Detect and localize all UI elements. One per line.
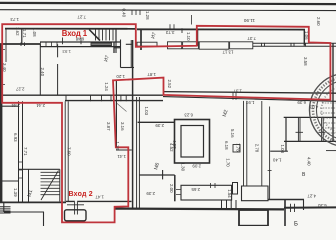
svg-text:2.27: 2.27 [15, 87, 24, 92]
wall x269.6 [269, 107, 271, 200]
corridor wall x116 [115, 80, 117, 148]
svg-text:6.39: 6.39 [297, 100, 306, 105]
stair hatch stripes [92, 44, 112, 46]
svg-text:1.08: 1.08 [32, 28, 37, 37]
window tick on x269.6 [268, 170, 272, 172]
svg-text:1.39: 1.39 [13, 188, 18, 197]
pier box b [233, 183, 238, 195]
wall y199 east [268, 199, 304, 201]
long wall x132.6 [132, 40, 134, 209]
svg-text:7.37: 7.37 [247, 36, 256, 41]
stairwell wall x131.2 [130, 40, 132, 68]
stair room right wall [59, 169, 61, 201]
svg-text:2.60: 2.60 [316, 17, 321, 26]
corridor band north line west [0, 94, 163, 96]
svg-text:1.71: 1.71 [22, 29, 27, 38]
shaft outer box [175, 120, 210, 164]
room6 top wall [138, 121, 175, 123]
NE rooms dividers [298, 118, 323, 141]
svg-text:4.40: 4.40 [307, 157, 312, 166]
svg-text:1.37: 1.37 [233, 89, 242, 94]
right window band ticks [262, 43, 306, 47]
room6 left wall double [137, 97, 140, 209]
wall vertical x141 [140, 29, 142, 50]
bottom room box1 [181, 185, 232, 200]
svg-text:6.30: 6.30 [317, 203, 326, 208]
door jambs entrance2 [75, 201, 78, 215]
svg-text:1.03: 1.03 [144, 107, 149, 116]
west corridor ticks [19, 162, 23, 178]
stairwell wall x116 lower [115, 42, 117, 53]
svg-text:4.27: 4.27 [307, 193, 316, 198]
svg-text:2.39: 2.39 [146, 191, 155, 196]
svg-text:7.60: 7.60 [67, 147, 72, 156]
svg-text:4.52: 4.52 [169, 143, 174, 152]
wall y181 [0, 180, 19, 182]
staircase upper diagonal [89, 30, 100, 41]
wall x174.8 [174, 175, 176, 201]
top wall right section [137, 28, 305, 30]
wall x284 lower [284, 199, 286, 226]
window box row [137, 42, 157, 46]
east wall x333 [332, 44, 334, 142]
room divider x57.6 upper [57, 44, 59, 57]
corridor east wall x66 double [65, 101, 68, 201]
svg-text:2.44: 2.44 [36, 103, 45, 108]
svg-text:6.23: 6.23 [184, 112, 193, 117]
svg-text:0.40: 0.40 [122, 9, 127, 18]
door tick entrance2 [67, 204, 84, 206]
svg-text:1.87: 1.87 [147, 72, 156, 77]
corridor band ticks [66, 95, 126, 101]
porch entrance2 [65, 210, 87, 221]
svg-text:2.65: 2.65 [191, 187, 200, 192]
NE rooms bottom wall [284, 140, 336, 142]
svg-text:6.93: 6.93 [13, 133, 18, 142]
wall y150.6 right [326, 150, 336, 152]
stair hatch box [91, 43, 112, 47]
west corridor wall b [22, 101, 24, 202]
west corridor wall a [18, 101, 20, 202]
window ticks x21 x24.5 [21, 42, 25, 46]
corridor band ticks east [233, 92, 236, 100]
svg-text:7.27: 7.27 [77, 15, 86, 20]
svg-text:3.58: 3.58 [303, 57, 308, 66]
wall x303.5 [303, 199, 305, 210]
svg-text:1.97: 1.97 [245, 100, 254, 105]
door swing diagonal [117, 103, 127, 112]
SW hatched steps [0, 207, 11, 213]
svg-text:2.09: 2.09 [192, 164, 201, 169]
corridor jog wall [116, 149, 132, 151]
svg-text:3.40: 3.40 [2, 63, 7, 72]
SE protruding room [239, 210, 268, 226]
svg-text:1.41: 1.41 [117, 154, 126, 159]
svg-text:1.40: 1.40 [272, 157, 281, 162]
svg-text:1.62: 1.62 [15, 27, 20, 36]
wall vertical x114 [113, 42, 115, 53]
stairwell wall x116 [115, 29, 117, 42]
alcove wall [66, 200, 132, 202]
wall segment y44.3 [126, 43, 133, 45]
stairwell wall x120.5 [120, 40, 122, 68]
south wall east [284, 206, 336, 208]
staircase lower diagonal [41, 171, 59, 201]
shaft inner box [181, 126, 204, 158]
box1 door dashes [176, 190, 181, 195]
dimension tick x191.5 [191, 15, 193, 25]
svg-text:13.17: 13.17 [222, 49, 234, 54]
NE rooms top wall [284, 116, 336, 118]
svg-text:Б: Б [294, 222, 298, 227]
wall under entrance row left [0, 43, 40, 45]
svg-text:2.00: 2.00 [169, 184, 174, 193]
pier box a [233, 145, 240, 153]
SW step wall [4, 202, 44, 226]
svg-text:1.30: 1.30 [181, 163, 186, 172]
window double lines left [40, 42, 121, 47]
svg-text:11.90: 11.90 [243, 18, 255, 23]
svg-text:1.54: 1.54 [227, 189, 232, 198]
svg-text:2.39: 2.39 [155, 123, 164, 128]
window ticks [41, 42, 58, 47]
door jamb entrance1 left [62, 38, 64, 45]
svg-text:7.71: 7.71 [23, 147, 28, 156]
svg-text:1.28: 1.28 [145, 11, 150, 20]
room divider x57.6 lower [57, 64, 59, 95]
bottom room2 [242, 186, 269, 201]
top border thin line [0, 9, 336, 12]
svg-text:2.40: 2.40 [40, 68, 45, 77]
west south wall [0, 201, 66, 203]
svg-text:6.48: 6.48 [75, 36, 84, 41]
wall y47.8 short [114, 47, 121, 49]
NE rooms window dashes [296, 131, 326, 133]
svg-text:3.16: 3.16 [120, 122, 125, 131]
corridor band north line east [163, 92, 336, 94]
left outer wall [0, 44, 2, 203]
door tick x162.6 [162, 170, 164, 179]
svg-text:1.06: 1.06 [304, 31, 309, 40]
NE rooms left wall [285, 117, 287, 151]
box1 window ticks [211, 183, 216, 188]
wall y106 [0, 105, 19, 107]
window ticks near x170 [170, 24, 174, 29]
svg-text:4.03: 4.03 [309, 104, 318, 109]
svg-text:2.52: 2.52 [167, 80, 172, 89]
right window band walls [253, 43, 336, 46]
window tick x182 on top wall [181, 28, 183, 33]
wc wall x243.5 double [244, 101, 247, 186]
svg-text:Вход 2: Вход 2 [69, 191, 93, 198]
left wall ticks [0, 50, 5, 85]
step walls under box1 [222, 200, 237, 209]
partition wall y175 [139, 174, 175, 176]
window ticks on top border [132, 10, 140, 15]
south wall main [115, 208, 284, 211]
stairwell cap [121, 67, 135, 69]
wall vertical x197.5 [197, 29, 199, 46]
svg-text:1.47: 1.47 [95, 194, 104, 199]
stamp [310, 74, 336, 147]
stair room top wall [19, 168, 60, 170]
wall vertical x304 [303, 29, 305, 45]
svg-text:1.24: 1.24 [104, 82, 109, 91]
svg-text:2.44: 2.44 [11, 103, 20, 108]
staircase upper risers [96, 29, 114, 40]
svg-text:3.87: 3.87 [106, 122, 111, 131]
top border thick line [0, 3, 336, 4]
corridor band south line west [65, 100, 163, 102]
svg-text:1.03: 1.03 [280, 145, 285, 154]
svg-text:1.73: 1.73 [10, 17, 19, 22]
south wall ticks [291, 204, 295, 212]
staircase lower treads [41, 172, 60, 194]
svg-text:1.93: 1.93 [62, 49, 71, 54]
svg-text:2.78: 2.78 [254, 144, 259, 153]
svg-text:1.20: 1.20 [116, 74, 125, 79]
svg-text:6.18: 6.18 [224, 141, 229, 150]
wall x261.8 [261, 101, 263, 186]
room divider top-left [21, 29, 23, 45]
svg-text:1.39: 1.39 [115, 142, 120, 151]
door jamb entrance1 right [80, 38, 82, 45]
room divider x40 [39, 44, 41, 95]
top wall left section [5, 28, 135, 30]
svg-text:1.10: 1.10 [186, 32, 191, 41]
stair room divider [28, 169, 30, 202]
left inner wall line [5, 29, 7, 62]
svg-text:3.73: 3.73 [165, 30, 174, 35]
svg-text:5.16: 5.16 [230, 129, 235, 138]
svg-text:7.78: 7.78 [235, 143, 240, 152]
corridor band south line east [163, 97, 336, 102]
svg-text:1.70: 1.70 [226, 158, 231, 167]
wall y151.2 [270, 150, 288, 152]
